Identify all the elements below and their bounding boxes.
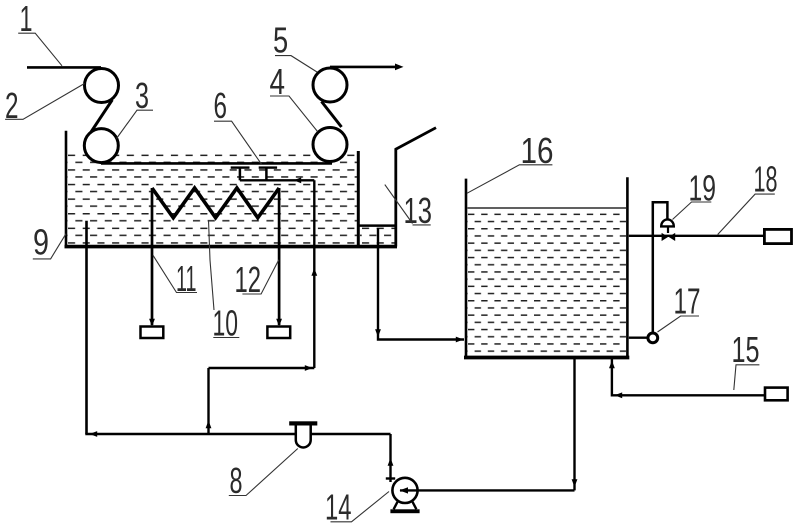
web exit line: [330, 66, 398, 69]
tank 9 bottom: [65, 245, 398, 249]
arrow left on nozzle feed: [294, 177, 302, 183]
nozzle 6 stem left: [239, 168, 242, 180]
arrow left line 15: [615, 392, 623, 398]
roller 3: [84, 129, 118, 163]
valve 19 stem: [667, 226, 669, 233]
arrow left manifold: [90, 431, 98, 437]
tank 16 bottom: [464, 356, 629, 360]
heater lead wire left: [151, 188, 154, 325]
arrow right into tank 16: [456, 337, 464, 343]
pump 14 body: [392, 478, 417, 503]
arrow down pipe: [572, 479, 578, 487]
liquid (dashes) left tank: [68, 154, 358, 245]
pump suction drop: [389, 434, 391, 482]
tank 16 left wall: [465, 179, 468, 359]
pump flange tick: [386, 477, 395, 479]
web exit arrow: [395, 64, 404, 71]
svg-text:9: 9: [33, 222, 49, 263]
valve 19 actuator dome: [661, 219, 674, 226]
terminal box 11: [141, 327, 164, 339]
roller 5: [313, 68, 347, 102]
svg-text:5: 5: [273, 20, 288, 61]
overflow compartment lid: [358, 224, 396, 227]
tank 16 right wall: [626, 177, 629, 359]
branch vertical: [207, 368, 209, 434]
liquid (dashes) overflow compartment: [360, 227, 395, 245]
arrow up branch vertical: [206, 421, 212, 429]
web entry line: [27, 66, 101, 69]
funnel 8 cup: [296, 426, 311, 448]
arrow up riser: [311, 268, 317, 276]
arrow up pump riser: [388, 458, 394, 466]
nozzle 6 bar right: [259, 166, 277, 168]
liquid (dashes) right tank: [468, 213, 627, 355]
arrow left into pump: [400, 487, 409, 493]
pump 14 base legs: [394, 502, 417, 510]
valve 19 body: [662, 233, 669, 241]
chute 13 wall: [394, 149, 397, 247]
chute 13 flare: [395, 128, 436, 150]
terminal box 12: [267, 327, 290, 339]
valve riser: [653, 202, 668, 333]
funnel 8 top bar: [289, 421, 317, 425]
nozzle feed line: [240, 179, 314, 181]
pump 14 base bar: [390, 509, 419, 513]
tank 9 right wall: [357, 151, 360, 248]
svg-text:17: 17: [674, 281, 701, 322]
pipe 18: [629, 235, 764, 237]
plug 15: [765, 388, 788, 401]
web line in tank: [101, 162, 332, 165]
plug 18: [764, 229, 791, 243]
svg-text:6: 6: [214, 85, 228, 126]
roller 4: [313, 128, 347, 162]
tank 16 liquid surface: [468, 207, 627, 209]
roller 2: [85, 69, 119, 103]
overflow drain pipe down: [378, 228, 464, 340]
nozzle 6 bar left: [231, 166, 250, 168]
suction pipe in tank 9: [85, 221, 88, 434]
svg-text:15: 15: [732, 329, 760, 370]
arrow up line 15: [609, 361, 615, 369]
arrow right branch: [305, 365, 313, 371]
line 15: [612, 359, 765, 395]
valve 17: [648, 333, 658, 343]
pump outlet line: [400, 489, 575, 491]
pipe up to tank 16 bottom: [573, 357, 575, 490]
manifold line: [85, 433, 390, 435]
arrow down overflow drain: [375, 329, 381, 337]
svg-text:8: 8: [230, 460, 243, 501]
arrow down lead left: [149, 319, 155, 327]
heater 10 zigzag: [152, 188, 279, 218]
wire tangent rollers 2-3: [90, 100, 113, 134]
heater lead wire right: [278, 188, 281, 325]
wire tangent rollers 4-5: [322, 102, 342, 128]
tank 9 left wall: [65, 131, 68, 248]
svg-text:18: 18: [754, 159, 778, 200]
valve 17 connector: [629, 337, 648, 339]
nozzle 6 stem right: [265, 168, 268, 180]
riser to nozzle: [313, 180, 315, 368]
branch horizontal to riser: [209, 367, 315, 369]
arrow down lead right: [276, 319, 282, 327]
